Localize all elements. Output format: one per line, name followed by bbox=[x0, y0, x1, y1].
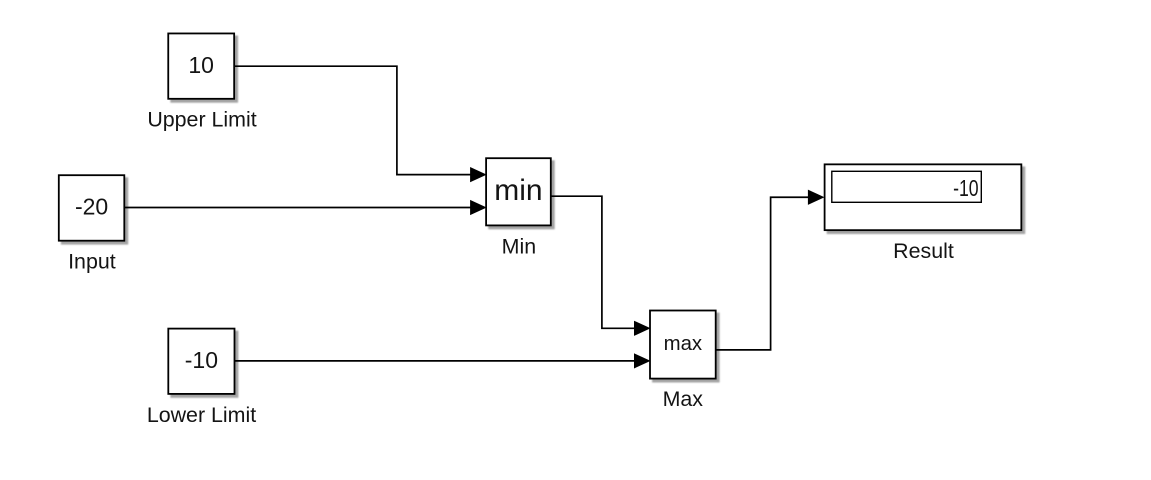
svg-text:Min: Min bbox=[502, 235, 536, 259]
label "Max" bbox=[663, 387, 704, 411]
constant block C1 "10" (Upper Limit) bbox=[168, 33, 234, 98]
svg-text:Input: Input bbox=[68, 250, 116, 274]
svg-text:Lower Limit: Lower Limit bbox=[147, 403, 256, 427]
constant block C2 "-20" (Input) bbox=[59, 175, 125, 241]
label "Lower Limit" bbox=[147, 403, 256, 427]
svg-text:min: min bbox=[494, 174, 542, 207]
svg-text:Upper Limit: Upper Limit bbox=[147, 108, 256, 132]
svg-text:max: max bbox=[664, 333, 703, 355]
arrowhead into Min in2 bbox=[470, 200, 487, 215]
label "Min" bbox=[502, 235, 536, 259]
label "Upper Limit" bbox=[147, 108, 256, 132]
svg-text:-10: -10 bbox=[953, 175, 979, 201]
wire W1: Upper Limit out → Min in1 bbox=[234, 66, 471, 174]
svg-text:Result: Result bbox=[893, 239, 954, 263]
min block U1 bbox=[486, 158, 551, 225]
svg-text:-10: -10 bbox=[185, 347, 218, 373]
display block D1 (Result) bbox=[825, 164, 1022, 230]
wire W5: Max out → Result in bbox=[716, 197, 809, 350]
arrowhead into Result in bbox=[808, 190, 825, 205]
svg-text:-20: -20 bbox=[75, 194, 108, 220]
constant block C3 "-10" (Lower Limit) bbox=[168, 329, 234, 394]
arrowhead into Max in1 bbox=[634, 321, 651, 336]
wire W3: Lower Limit out → Max in2 bbox=[235, 360, 636, 362]
max block U2 bbox=[650, 311, 716, 379]
svg-text:Max: Max bbox=[663, 387, 704, 411]
label "Input" bbox=[68, 250, 116, 274]
arrowhead into Min in1 bbox=[470, 167, 487, 182]
svg-text:10: 10 bbox=[188, 52, 214, 78]
label "Result" bbox=[893, 239, 954, 263]
wire W4: Min out → Max in1 bbox=[551, 196, 635, 328]
wire W2: Input out → Min in2 bbox=[124, 207, 471, 209]
arrowhead into Max in2 bbox=[634, 353, 651, 368]
